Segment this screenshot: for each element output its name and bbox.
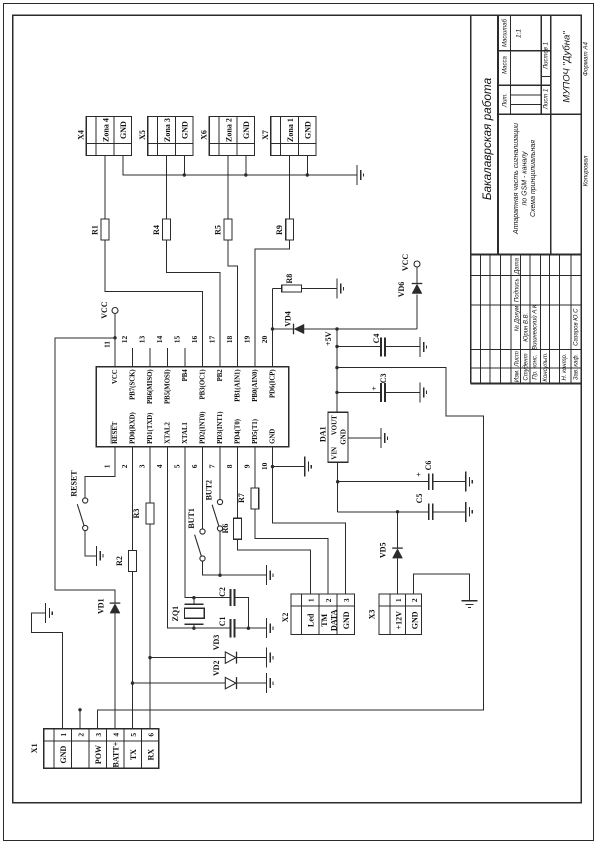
wire pin5 XTAL1 to crystal: [185, 447, 230, 598]
ground (DA1): [381, 428, 388, 448]
junction C4: [335, 345, 338, 348]
ground (C6): [466, 472, 473, 492]
svg-text:VIN: VIN: [330, 447, 338, 460]
svg-text:15: 15: [173, 336, 182, 344]
switch RESET: [70, 470, 88, 531]
title block text: [480, 18, 589, 382]
wire pin9 to R7: [254, 447, 256, 488]
svg-text:VOUT: VOUT: [330, 415, 338, 435]
svg-text:11: 11: [103, 341, 112, 348]
junction C6: [336, 480, 339, 483]
connector X6 (Zona 2/GND): [200, 117, 255, 156]
microcontroller U1 box: [96, 367, 288, 447]
svg-text:1: 1: [307, 598, 316, 602]
svg-text:RESET: RESET: [112, 421, 119, 444]
resistor R6: [221, 518, 242, 539]
wire R6 to X2 Led: [238, 539, 311, 594]
wire pin11 to VCC terminal: [114, 314, 116, 367]
power terminal VCC (right): [401, 254, 420, 272]
ground (X3): [462, 601, 478, 608]
U1 top pin names and numbers 11-20: [103, 336, 277, 405]
svg-text:VD4: VD4: [284, 311, 293, 327]
junction X1 pin2 stub: [78, 708, 81, 711]
diode VD1: [97, 598, 121, 614]
svg-text:4: 4: [155, 464, 164, 468]
svg-text:Лист 1: Лист 1: [544, 89, 550, 110]
wire pin8 to R6: [237, 447, 239, 518]
svg-text:Zona 1: Zona 1: [286, 118, 295, 142]
wire VD6 to VCC terminal: [416, 267, 418, 284]
crystal ZQ1: [171, 598, 204, 629]
svg-text:PD1(TXD): PD1(TXD): [147, 413, 154, 444]
diode VD4: [284, 311, 305, 334]
diode VD6: [397, 282, 422, 298]
svg-text:C3: C3: [379, 374, 388, 384]
svg-text:GND: GND: [181, 121, 190, 139]
svg-text:3: 3: [138, 464, 147, 468]
resistor R8: [282, 274, 302, 292]
svg-text:3: 3: [342, 598, 351, 602]
svg-text:VCC: VCC: [100, 301, 109, 319]
ground (buttons): [267, 565, 274, 585]
svg-text:DATA: DATA: [329, 609, 338, 631]
svg-text:Н. контр.: Н. контр.: [562, 353, 568, 380]
power terminal VCC (left): [100, 301, 118, 319]
junction BUT2/BUT1: [218, 574, 221, 577]
svg-text:Пр. конс.: Пр. конс.: [533, 354, 539, 379]
svg-text:2: 2: [410, 598, 419, 602]
wire BUT2 down: [219, 531, 221, 575]
pin 13 stub: [149, 348, 151, 367]
svg-text:C6: C6: [424, 461, 433, 471]
stub X1 pin2: [79, 710, 81, 729]
svg-text:1: 1: [103, 464, 112, 468]
wire pin20 to VD4: [273, 328, 294, 330]
svg-text:C5: C5: [415, 494, 424, 504]
wire R2 to X1: [132, 571, 134, 728]
wire R4 to pin17: [167, 240, 221, 367]
svg-text:+12V: +12V: [394, 611, 403, 630]
svg-text:Сазаров Ю.С: Сазаров Ю.С: [574, 308, 580, 346]
wire VD2 to ground: [237, 682, 267, 684]
svg-text:PB5(MOSI): PB5(MOSI): [165, 369, 172, 404]
svg-text:3: 3: [94, 733, 103, 737]
svg-text:Консульт.: Консульт.: [543, 352, 549, 381]
wire pin2 through R2 to X1 TX: [132, 447, 134, 551]
svg-text:BATT+: BATT+: [112, 741, 121, 767]
svg-text:Формат А4: Формат А4: [583, 42, 590, 76]
svg-text:4: 4: [112, 733, 121, 737]
svg-text:VCC: VCC: [112, 369, 119, 384]
diode VD5: [379, 543, 403, 559]
svg-text:PB1(AIN1): PB1(AIN1): [235, 369, 242, 401]
junction crystal bottom: [192, 627, 195, 630]
svg-text:DA1: DA1: [319, 426, 328, 442]
svg-text:R1: R1: [91, 225, 100, 235]
svg-text:Зав. каф.: Зав. каф.: [574, 354, 580, 380]
wire BUT1 to ground: [203, 561, 267, 575]
wire R7 to X2 TM: [255, 509, 328, 594]
svg-text:2: 2: [120, 464, 129, 468]
wire pin10 to X2 GND: [273, 467, 346, 594]
svg-text:2: 2: [324, 598, 333, 602]
wire R8 to ground: [301, 288, 337, 290]
capacitor C2: [218, 587, 234, 606]
svg-text:GND: GND: [410, 611, 419, 629]
wire pin1 to RESET switch: [85, 447, 115, 498]
junction +12V branch: [335, 366, 338, 369]
svg-text:X3: X3: [368, 610, 377, 620]
connector X7 (Zona 1/GND): [261, 117, 316, 156]
wire C4 left: [337, 346, 381, 348]
ground (zone bus): [357, 165, 364, 185]
ground (C5): [466, 502, 473, 522]
svg-text:VD2: VD2: [212, 660, 221, 676]
wire C3 to ground: [385, 391, 420, 393]
svg-text:+5V: +5V: [324, 331, 333, 346]
wire C3 left: [337, 391, 381, 393]
svg-text:VD6: VD6: [397, 282, 406, 298]
wire R1 to pin16: [105, 240, 203, 367]
wire pin10 GND down: [272, 447, 274, 467]
junction C1 right: [247, 627, 250, 630]
diode VD3: [212, 635, 237, 664]
wire pin7 to BUT2: [219, 447, 221, 500]
junction X6 GND: [244, 173, 247, 176]
wire C6 to ground: [433, 481, 466, 483]
svg-text:BUT2: BUT2: [205, 480, 214, 500]
ground (U1 GND): [305, 457, 312, 477]
switch BUT1: [187, 508, 205, 561]
svg-text:10: 10: [260, 462, 269, 470]
wire pin3 through R3: [149, 447, 151, 503]
wire C6 run: [338, 481, 429, 483]
svg-text:TX: TX: [129, 749, 138, 760]
capacitor C3: [370, 374, 388, 402]
svg-text:1: 1: [59, 733, 68, 737]
svg-text:GND: GND: [342, 611, 351, 629]
svg-text:5: 5: [129, 733, 138, 737]
svg-text:МУПОЧ "Дубна": МУПОЧ "Дубна": [561, 31, 572, 103]
wire VD2 run: [133, 682, 226, 684]
svg-text:C2: C2: [218, 587, 227, 597]
svg-text:XTAL1: XTAL1: [182, 422, 189, 444]
switch BUT2: [205, 480, 223, 531]
junction VD2 tap: [131, 681, 134, 684]
svg-text:PD5(T1): PD5(T1): [252, 419, 259, 444]
wire X5 Zona3 to R4: [166, 156, 168, 219]
svg-text:X5: X5: [138, 130, 147, 140]
svg-text:16: 16: [190, 336, 199, 344]
wire X7 GND to bus: [306, 156, 308, 175]
resistor R7: [237, 488, 259, 509]
wire C2 right: [234, 598, 248, 629]
svg-text:Изм.: Изм.: [514, 369, 520, 382]
wire R3 to X1 RX: [149, 524, 151, 729]
junction VCC rail: [113, 336, 116, 339]
pin 15 stub: [184, 348, 186, 367]
capacitor C1: [218, 617, 234, 638]
junction crystal top: [192, 596, 195, 599]
svg-text:VCC: VCC: [401, 254, 410, 272]
svg-text:R4: R4: [152, 225, 161, 235]
ground (RESET): [97, 546, 104, 566]
svg-text:7: 7: [208, 464, 217, 468]
svg-text:RX: RX: [147, 749, 156, 761]
svg-text:12: 12: [120, 336, 129, 344]
svg-text:PD4(T0): PD4(T0): [235, 419, 242, 444]
svg-text:Масштаб: Масштаб: [502, 18, 508, 47]
svg-text:Юрин В.В.: Юрин В.В.: [523, 313, 529, 342]
svg-text:R3: R3: [132, 509, 141, 519]
wire pin10 to ground: [273, 466, 305, 468]
svg-text:Листов 1: Листов 1: [544, 42, 550, 70]
svg-text:PD2(INT0): PD2(INT0): [200, 411, 207, 443]
svg-text:TM: TM: [320, 613, 329, 626]
svg-text:+: +: [370, 386, 379, 391]
svg-text:Led: Led: [307, 613, 316, 627]
svg-text:R7: R7: [237, 493, 246, 503]
svg-text:R2: R2: [115, 556, 124, 566]
svg-text:X4: X4: [77, 130, 86, 140]
voltage regulator DA1: [319, 412, 349, 462]
svg-text:9: 9: [243, 464, 252, 468]
svg-text:Zona 3: Zona 3: [163, 118, 172, 142]
svg-text:Zona 2: Zona 2: [225, 118, 234, 142]
svg-text:X6: X6: [200, 130, 209, 140]
junction pin20/VD4: [271, 327, 274, 330]
svg-text:PB3(OC1): PB3(OC1): [200, 369, 207, 399]
junction VD5: [396, 510, 399, 513]
svg-text:X7: X7: [261, 130, 270, 140]
connector X5 (Zona 3/GND): [138, 117, 193, 156]
svg-text:Вишневский А.К: Вишневский А.К: [532, 304, 539, 350]
capacitor C6: [415, 461, 433, 490]
svg-text:+: +: [415, 472, 424, 477]
junction +5V: [335, 327, 338, 330]
wire C5 node to VD5: [397, 512, 399, 548]
svg-text:R8: R8: [285, 274, 294, 284]
svg-text:PB2: PB2: [217, 369, 224, 382]
wire VD4 to +5V node: [304, 328, 417, 330]
svg-text:19: 19: [243, 336, 252, 344]
wire X4 Zona4 to R1: [104, 156, 106, 219]
pin 14 stub: [167, 348, 169, 367]
wire VCC rail to VD1: [55, 338, 115, 604]
wire C5 to ground: [433, 511, 466, 513]
pin 12 stub: [132, 348, 134, 367]
wire VD5 to X3 pin1: [397, 558, 399, 594]
svg-text:R9: R9: [275, 225, 284, 235]
svg-text:№ Докум.: № Докум.: [513, 304, 520, 331]
svg-text:Подпись: Подпись: [514, 278, 520, 302]
connector X1 (GND/POW/BATT+/TX/RX): [30, 729, 159, 769]
svg-text:PB7(SCK): PB7(SCK): [130, 369, 137, 400]
svg-text:Лит.: Лит.: [502, 93, 508, 108]
resistor R3: [132, 503, 154, 524]
capacitor C5: [415, 494, 433, 520]
svg-text:BUT1: BUT1: [187, 508, 196, 528]
svg-text:Бакалаврская работа: Бакалаврская работа: [480, 77, 494, 200]
svg-text:GND: GND: [59, 745, 68, 763]
ground (R8): [337, 279, 344, 299]
wire X3 pin2 to ground: [414, 574, 470, 601]
svg-text:6: 6: [190, 464, 199, 468]
connector X2 (Led/TM DATA/GND): [281, 594, 354, 634]
junction VD3 tap: [148, 656, 151, 659]
svg-text:Zona 4: Zona 4: [102, 118, 111, 142]
svg-text:X2: X2: [281, 613, 290, 623]
svg-text:17: 17: [208, 336, 217, 344]
wire pin4 XTAL2 to crystal: [168, 447, 231, 628]
svg-text:GND: GND: [304, 121, 313, 139]
svg-text:GND: GND: [339, 429, 347, 445]
wire VD6 riser: [416, 295, 418, 330]
resistor R1: [91, 219, 109, 240]
svg-text:1:1: 1:1: [516, 29, 523, 38]
wire RESET to ground: [85, 531, 96, 556]
svg-text:PD3(INT1): PD3(INT1): [217, 411, 224, 443]
wire VD3 to ground: [237, 657, 267, 659]
svg-text:20: 20: [260, 336, 269, 344]
wire pin6 to BUT1: [202, 447, 204, 529]
capacitor C4: [372, 334, 385, 357]
svg-text:18: 18: [225, 336, 234, 344]
svg-text:PD0(RXD): PD0(RXD): [130, 412, 137, 444]
svg-text:C4: C4: [372, 334, 381, 344]
svg-text:Аппаратная часть сигнализации: Аппаратная часть сигнализации: [513, 123, 520, 235]
resistor R5: [214, 219, 232, 240]
svg-text:VD3: VD3: [212, 635, 221, 651]
svg-text:Лист: Лист: [514, 351, 520, 367]
svg-text:PB4: PB4: [182, 369, 189, 382]
ground (VD3): [267, 648, 274, 668]
svg-text:по GSM - каналу: по GSM - каналу: [522, 151, 529, 206]
resistor R2: [115, 550, 136, 571]
wire R9 to pin19: [255, 240, 290, 367]
svg-text:X1: X1: [30, 743, 39, 753]
svg-text:2: 2: [77, 733, 86, 737]
wire VD1 to X1 BATT+: [114, 613, 116, 729]
svg-text:R6: R6: [221, 524, 230, 534]
svg-text:PB6(MISO): PB6(MISO): [147, 369, 154, 404]
svg-text:POW: POW: [94, 745, 103, 764]
svg-text:VD1: VD1: [97, 598, 106, 614]
wire R5 to pin18: [228, 240, 238, 367]
svg-text:1: 1: [394, 598, 403, 602]
svg-text:VD5: VD5: [379, 543, 388, 559]
ground (C1/C2): [267, 618, 274, 638]
wire +5V rail: [336, 329, 338, 412]
connector X3 (+12V/GND): [368, 594, 422, 634]
junction pin10: [271, 465, 274, 468]
wire X5 GND to bus: [183, 156, 185, 175]
resistor R4: [152, 219, 170, 240]
wire GND bus from X4 to ground: [123, 156, 357, 175]
wire C1 to ground: [234, 627, 266, 629]
svg-text:GND: GND: [270, 429, 277, 444]
svg-text:6: 6: [147, 733, 156, 737]
wire C5 run: [338, 511, 429, 513]
wire R8 left: [273, 288, 282, 290]
wire X6 Zona2 to R5: [227, 156, 229, 219]
ground (C3): [420, 382, 427, 402]
junction X5 GND: [183, 173, 186, 176]
diode VD2: [212, 660, 237, 689]
svg-text:Студент: Студент: [523, 353, 529, 380]
svg-text:RESET: RESET: [70, 470, 79, 497]
wire +12V feed staircase: [98, 368, 484, 729]
connector X4 (Zona 4/GND): [77, 117, 132, 156]
wire X1 GND zigzag: [32, 613, 63, 729]
svg-text:PD6(ICP): PD6(ICP): [270, 369, 277, 398]
svg-text:13: 13: [138, 336, 147, 344]
title block grid: [471, 15, 582, 383]
U1 bottom pin names and numbers 1-10: [103, 411, 277, 470]
svg-text:Масса: Масса: [502, 55, 508, 73]
wire VD3 run: [150, 657, 225, 659]
svg-text:GND: GND: [242, 121, 251, 139]
svg-text:5: 5: [173, 464, 182, 468]
wire pin20 up to R8: [272, 289, 274, 367]
ground (VD2): [267, 673, 274, 693]
wire DA1 VIN down: [337, 462, 339, 511]
wire DA1 GND to ground: [348, 437, 381, 439]
svg-text:C1: C1: [218, 617, 227, 627]
svg-text:GND: GND: [119, 121, 128, 139]
wire C4 to ground: [385, 346, 420, 348]
ground (X1): [46, 603, 53, 623]
wire X7 Zona1 to R9: [289, 156, 291, 219]
svg-text:R5: R5: [214, 225, 223, 235]
ground (C4): [420, 337, 427, 357]
svg-text:Копировал: Копировал: [583, 155, 590, 186]
svg-text:Дата: Дата: [514, 257, 520, 274]
junction C3: [335, 391, 338, 394]
resistor R9: [275, 219, 293, 240]
svg-text:8: 8: [225, 464, 234, 468]
svg-text:XTAL2: XTAL2: [165, 422, 172, 444]
svg-text:PB0(AIN0): PB0(AIN0): [252, 369, 259, 401]
junction X7 GND: [306, 173, 309, 176]
svg-text:Схема принципиальная: Схема принципиальная: [530, 140, 537, 217]
svg-text:ZQ1: ZQ1: [171, 606, 180, 622]
svg-text:14: 14: [155, 336, 164, 344]
wire X6 GND to bus: [245, 156, 247, 175]
